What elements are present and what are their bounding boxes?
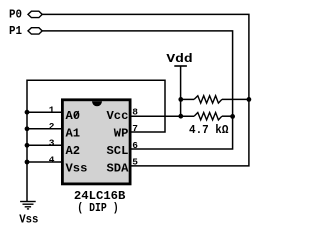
svg-text:WP: WP xyxy=(114,126,129,140)
junction dot bus/pin2 xyxy=(25,126,30,131)
junction dot Vdd/Vcc/R2 left xyxy=(178,114,183,119)
svg-text:3: 3 xyxy=(49,138,55,149)
junction dot Vdd/R1 left xyxy=(178,97,183,102)
svg-text:P1: P1 xyxy=(9,25,22,38)
power Vdd symbol bar xyxy=(174,65,187,67)
node P0 port hexagon xyxy=(28,11,42,17)
wire A1 (pin 2) xyxy=(27,128,61,130)
svg-text:Vss: Vss xyxy=(19,214,38,227)
op chip U1 24LC16B body xyxy=(62,100,130,184)
svg-text:A1: A1 xyxy=(66,126,81,140)
wire top resistor right lead xyxy=(222,98,249,100)
wire top resistor left lead xyxy=(181,98,194,100)
svg-text:4.7 kΩ: 4.7 kΩ xyxy=(189,124,228,137)
svg-text:Vcc: Vcc xyxy=(107,109,129,123)
svg-text:6: 6 xyxy=(132,140,138,151)
wire Vss (pin 4) xyxy=(27,161,61,163)
svg-text:4: 4 xyxy=(49,154,55,165)
svg-text:Vss: Vss xyxy=(66,161,88,175)
ground symbol xyxy=(20,202,36,209)
wire Vdd stem xyxy=(180,66,182,116)
junction dot bus/pin3 xyxy=(25,143,30,148)
junction dot bus/pin1 xyxy=(25,110,30,115)
resistor R2 4.7k (bottom, to P1/SCL) xyxy=(194,113,222,120)
svg-text:SCL: SCL xyxy=(107,144,129,158)
junction dot R2 right/P1/SCL xyxy=(230,114,235,119)
node P1 port hexagon xyxy=(28,28,42,34)
svg-text:1: 1 xyxy=(49,105,55,116)
svg-text:Vdd: Vdd xyxy=(166,52,192,66)
svg-text:8: 8 xyxy=(132,106,138,117)
resistor R1 4.7k (top, to P0/SDA) xyxy=(194,96,222,103)
junction dot bus/pin4 xyxy=(25,160,30,165)
svg-text:5: 5 xyxy=(132,156,138,167)
chip notch marker xyxy=(92,101,102,106)
wire ground bus to WP (pin 7) xyxy=(27,80,165,201)
wire P1 to SCL (pin 6) xyxy=(42,31,232,149)
svg-text:7: 7 xyxy=(132,123,138,134)
svg-text:2: 2 xyxy=(49,121,55,132)
junction dot R1 right/P0/SDA xyxy=(247,97,252,102)
wire Vcc (pin 8) to Vdd junction xyxy=(132,115,195,117)
svg-text:P0: P0 xyxy=(9,9,22,22)
wire A0 (pin 1) xyxy=(27,111,61,113)
svg-text:( DIP ): ( DIP ) xyxy=(77,202,118,215)
wire P0 to SDA (pin 5) xyxy=(42,14,249,166)
wire bottom resistor right lead xyxy=(222,115,233,117)
svg-text:SDA: SDA xyxy=(107,161,130,175)
svg-text:A2: A2 xyxy=(66,144,81,158)
pin label A0 zero slash xyxy=(75,111,79,118)
wire A2 (pin 3) xyxy=(27,144,61,146)
